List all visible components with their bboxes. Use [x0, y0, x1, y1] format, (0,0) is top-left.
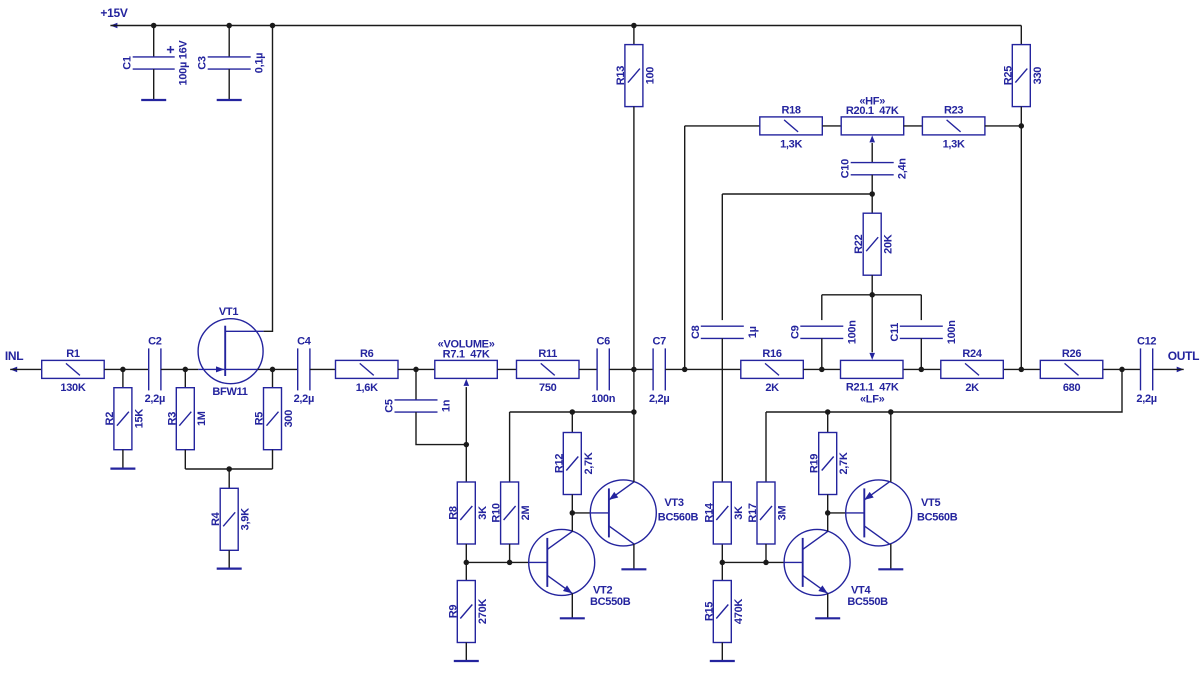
wiper arrow R20.1 [869, 135, 875, 142]
wire C6 to C7 [609, 368, 653, 370]
wire to VT5 base [828, 512, 846, 514]
junction R12 top [570, 409, 576, 415]
svg-text:VT2: VT2 [593, 585, 612, 597]
wiper of R20.1 [871, 143, 873, 163]
wire R10 to base line [509, 544, 511, 562]
resistor R12 [553, 433, 595, 495]
svg-text:C2: C2 [148, 335, 162, 347]
wire R5 to node [272, 450, 274, 469]
svg-text:R4: R4 [210, 511, 222, 526]
resistor R4 [210, 488, 252, 550]
wire base line VT2 [466, 561, 528, 563]
wire VT5 collector to ground [890, 544, 892, 569]
potentiometer R20.1 (HF) [841, 95, 904, 135]
svg-text:2,4n: 2,4n [897, 158, 909, 179]
svg-text:130K: 130K [60, 382, 85, 394]
resistor R11 [517, 348, 580, 394]
svg-text:«LF»: «LF» [860, 393, 885, 405]
svg-text:C12: C12 [1137, 335, 1156, 347]
wire down to R19 [827, 412, 829, 433]
svg-text:R8: R8 [447, 506, 459, 520]
wire down to R2 [122, 369, 124, 387]
capacitor C8 [690, 325, 759, 339]
wire node to VT2 collector [571, 513, 573, 532]
wire R25 down to main line [1020, 107, 1022, 370]
wire C3 to ground [228, 69, 230, 100]
junction C9/main [819, 367, 825, 373]
resistor R26 [1040, 348, 1103, 394]
ground under VT4 [815, 617, 840, 619]
svg-text:C1: C1 [121, 56, 133, 70]
svg-text:C10: C10 [840, 159, 852, 178]
svg-text:20K: 20K [883, 234, 895, 254]
wire R10/R12 node line [510, 411, 635, 413]
svg-text:R18: R18 [781, 105, 800, 117]
svg-text:R22: R22 [853, 234, 865, 253]
ground under C1 [141, 99, 166, 101]
capacitor C3 [197, 53, 266, 73]
wire VT4 emitter to ground [827, 593, 829, 618]
wire main line to R12 node [633, 369, 635, 412]
wire pot to R11 [497, 368, 516, 370]
ground under VT3 [621, 568, 646, 570]
capacitor C5 [384, 399, 453, 413]
svg-text:BC550B: BC550B [847, 596, 888, 608]
svg-text:R5: R5 [254, 412, 266, 426]
wire VT1 source to C4 [258, 368, 298, 370]
wire R3 to node [184, 450, 186, 469]
svg-text:R24: R24 [962, 348, 982, 360]
svg-text:270K: 270K [477, 599, 489, 624]
svg-text:2K: 2K [765, 382, 779, 394]
junction R22/wiper [869, 292, 875, 298]
wire rail to R13 [633, 26, 635, 45]
svg-text:C7: C7 [652, 335, 666, 347]
wiper arrow R7.1 [464, 379, 470, 386]
wire rail to C3 [228, 26, 230, 57]
resistor R18 [760, 105, 823, 151]
capacitor C7 [649, 335, 669, 405]
wire C2 to VT1 gate [161, 368, 198, 370]
capacitor C11 [889, 320, 958, 344]
junction R23/R25 [1019, 123, 1025, 128]
svg-text:2,2µ: 2,2µ [649, 393, 669, 405]
svg-text:2K: 2K [965, 382, 979, 394]
resistor R25 [1002, 45, 1044, 107]
resistor R8 [447, 482, 489, 544]
svg-text:C3: C3 [197, 56, 209, 70]
wire node to R22 [871, 194, 873, 213]
wire C12 to OUTL [1153, 368, 1184, 370]
svg-text:C8: C8 [690, 325, 702, 339]
svg-text:BFW11: BFW11 [212, 386, 247, 398]
junction R14/R15 [720, 560, 726, 566]
capacitor C6 [591, 335, 615, 405]
junction C7/R18 line [682, 367, 688, 373]
svg-text:BC560B: BC560B [917, 511, 958, 523]
svg-text:R6: R6 [360, 348, 374, 360]
wire R4 to ground [228, 550, 230, 568]
wire INL to R1 [10, 368, 42, 370]
wire node to R8 [465, 445, 467, 482]
ground under R4 [217, 567, 242, 569]
svg-text:2,2µ: 2,2µ [1136, 393, 1156, 405]
wire C10 node line [722, 193, 872, 195]
wire R2 to ground [122, 450, 124, 469]
svg-text:VT4: VT4 [851, 585, 871, 597]
wire base line VT4 [722, 561, 784, 563]
svg-text:100n: 100n [591, 393, 615, 405]
junction R10/base line [507, 560, 512, 566]
svg-text:2M: 2M [520, 506, 532, 521]
svg-text:3,9K: 3,9K [240, 508, 252, 530]
wire R23 to R25 line [985, 125, 1021, 127]
ground under R2 [110, 468, 135, 470]
ground under VT2 [560, 617, 585, 619]
svg-text:2,7K: 2,7K [838, 452, 850, 474]
resistor R16 [741, 348, 804, 394]
wire rail corner to R25 [1020, 26, 1022, 45]
junction C10/R22 [869, 191, 875, 197]
junction VT1 source/R5 [270, 367, 276, 373]
svg-text:2,7K: 2,7K [583, 452, 595, 474]
svg-text:100: 100 [644, 67, 656, 85]
junction R17/base line [763, 560, 769, 566]
wire R8 to base line [465, 544, 467, 562]
junction R12 line/VT3 line [631, 409, 637, 415]
svg-text:R16: R16 [762, 348, 781, 360]
svg-text:R12: R12 [553, 454, 565, 473]
wire R19 to VT4 collector node [827, 495, 829, 513]
svg-text:OUTL: OUTL [1168, 349, 1199, 363]
svg-text:2,2µ: 2,2µ [145, 393, 165, 405]
svg-text:100n: 100n [946, 320, 958, 344]
svg-text:VT5: VT5 [921, 497, 940, 509]
junction rail/VT1 drain [270, 23, 276, 29]
wire node to VT4 collector [827, 513, 829, 532]
svg-text:C9: C9 [789, 325, 801, 339]
INL arrow [10, 367, 17, 373]
wiper arrow R21.1 [869, 353, 875, 360]
ground under C3 [217, 99, 242, 101]
resistor R19 [809, 433, 851, 495]
svg-text:1,3K: 1,3K [943, 138, 965, 150]
wire down to R12 [571, 412, 573, 433]
svg-text:300: 300 [283, 410, 295, 428]
resistor R13 [615, 45, 657, 107]
wire R20.1 to R23 [904, 125, 923, 127]
svg-text:C6: C6 [596, 335, 610, 347]
wire R18 to R20.1 [822, 125, 841, 127]
wire down to R15 [721, 562, 723, 580]
potentiometer R21.1 (LF) [841, 360, 904, 405]
wire down to R9 [465, 562, 467, 580]
wire C4 to R6 [310, 368, 336, 370]
svg-text:R23: R23 [944, 105, 963, 117]
resistor R10 [491, 482, 532, 544]
svg-text:R17: R17 [747, 503, 759, 522]
wire to C9 [821, 295, 823, 320]
resistor R17 [747, 482, 789, 544]
wire R24 to R26 [1003, 368, 1040, 370]
junction R12/VT2 collector/VT3 base [570, 510, 576, 516]
capacitor C12 [1136, 335, 1156, 405]
junction R25/main [1019, 367, 1025, 373]
svg-text:VT3: VT3 [664, 497, 683, 509]
svg-text:R11: R11 [538, 348, 557, 360]
junction rail/C1 [151, 23, 157, 29]
wire R6 to volume pot [398, 368, 435, 370]
wire down to R3 [184, 369, 186, 387]
svg-text:R19: R19 [809, 454, 821, 473]
svg-text:R15: R15 [703, 602, 715, 621]
svg-text:750: 750 [539, 382, 557, 394]
resistor R22 [853, 213, 895, 275]
svg-text:3K: 3K [477, 506, 489, 520]
svg-text:330: 330 [1032, 67, 1044, 85]
junction C2/R3/VT1 gate [183, 367, 189, 373]
wire down to R17 [765, 412, 767, 482]
resistor R6 [336, 348, 399, 394]
resistor R2 [104, 388, 145, 450]
svg-text:100µ 16V: 100µ 16V [178, 40, 190, 86]
svg-text:INL: INL [5, 349, 23, 363]
svg-text:R26: R26 [1062, 348, 1081, 360]
svg-text:680: 680 [1063, 382, 1081, 394]
junction C11/main [919, 367, 925, 373]
junction R26/C12/feedback [1119, 367, 1125, 373]
wire R13 down to main line [633, 107, 635, 370]
wire R14 to base line [721, 544, 723, 562]
wire R15 to ground [721, 643, 723, 662]
wire C11 to main line [920, 338, 922, 369]
svg-text:R10: R10 [491, 503, 503, 522]
wire to C11 [920, 295, 922, 320]
junction rail/C3 [226, 23, 232, 29]
svg-text:VT1: VT1 [219, 306, 238, 318]
transistor VT2 (BC550B) [529, 529, 595, 595]
svg-text:R2: R2 [104, 412, 116, 426]
resistor R5 [254, 388, 296, 450]
wire R12 to VT2 collector node [571, 495, 573, 513]
wire VT3 emitter up [633, 412, 635, 482]
wire down to R10 [509, 412, 511, 482]
+15V arrow [110, 23, 117, 29]
junction R8/R9 [464, 560, 470, 566]
wire feedback line [766, 369, 1122, 412]
svg-text:3K: 3K [733, 506, 745, 520]
svg-text:BC550B: BC550B [590, 596, 631, 608]
capacitor C1 (electrolytic 100u 16V) [121, 40, 189, 86]
wire to R18 [685, 125, 760, 127]
junction R19/VT4 collector/VT5 base [825, 510, 831, 516]
svg-text:R13: R13 [615, 66, 627, 85]
wire rail to C1 [153, 26, 155, 57]
svg-text:0,1µ: 0,1µ [254, 53, 266, 73]
OUTL arrow [1177, 367, 1184, 373]
wire C8 to R14 [721, 338, 723, 482]
wire R1 to C2 [104, 368, 149, 370]
wire C9 to main line [821, 338, 823, 369]
resistor R23 [922, 105, 985, 151]
junction R1/R2 [120, 367, 126, 373]
wire down to R5 [272, 369, 274, 387]
ground under R15 [710, 660, 735, 662]
svg-text:R25: R25 [1002, 66, 1014, 85]
svg-text:R9: R9 [447, 605, 459, 619]
wire C5 to wiper node [416, 412, 466, 445]
ground under R9 [454, 660, 479, 662]
svg-text:1µ: 1µ [747, 326, 759, 338]
wire R9 to ground [465, 643, 467, 662]
wire R16 to R21.1 [803, 368, 840, 370]
capacitor C2 [145, 335, 165, 405]
svg-text:BC560B: BC560B [658, 511, 699, 523]
svg-text:R20.1 47K: R20.1 47K [846, 105, 899, 117]
wire R22 down [871, 275, 873, 295]
junction R3-R5 node/R4 [226, 466, 232, 472]
capacitor C4 [294, 335, 314, 405]
capacitor C10 [840, 158, 909, 179]
wire C1 to ground [153, 69, 155, 100]
wire R21.1 to R24 [903, 368, 941, 370]
wiper of R21.1 [871, 295, 873, 353]
svg-text:15K: 15K [133, 409, 145, 429]
resistor R14 [703, 482, 745, 544]
svg-text:100n: 100n [846, 320, 858, 344]
junction R6/C5/pot [413, 367, 419, 373]
resistor R1 [42, 348, 104, 394]
wire VT2 emitter to ground [571, 593, 573, 618]
wire R22 node line [822, 294, 922, 296]
svg-text:470K: 470K [733, 599, 745, 624]
junction rail/R13 [631, 23, 637, 29]
svg-text:C4: C4 [297, 335, 312, 347]
junction VT5 emitter/feedback [888, 409, 894, 415]
svg-text:R1: R1 [66, 348, 80, 360]
wire HF row down to main line [684, 126, 686, 370]
svg-text:+15V: +15V [100, 6, 127, 20]
wire VT5 emitter up [890, 412, 892, 482]
wiper of R7.1 [465, 387, 467, 445]
wire R26 to C12 [1103, 368, 1141, 370]
ground under VT5 [878, 568, 903, 570]
svg-text:R14: R14 [703, 502, 715, 522]
resistor R15 [703, 581, 745, 643]
wire to VT3 base [572, 512, 590, 514]
wire VT1 drain to rail [264, 26, 273, 332]
svg-text:R21.1 47K: R21.1 47K [846, 381, 899, 393]
svg-text:1n: 1n [441, 399, 453, 412]
wire R11 to C6 [579, 368, 597, 370]
transistor VT3 (BC560B) [590, 480, 656, 546]
resistor R24 [941, 348, 1004, 394]
svg-text:3M: 3M [777, 506, 789, 521]
wire C7 to R16 [665, 368, 741, 370]
wire +15V rail [110, 25, 1021, 27]
wire down to C5 [415, 369, 417, 400]
capacitor C9 [789, 320, 858, 344]
transistor VT4 (BC550B) [784, 529, 850, 595]
wire C10 down [871, 175, 873, 194]
potentiometer R7.1 (VOLUME) [435, 339, 498, 379]
wire down to C8 [721, 194, 723, 320]
transistor VT5 (BC560B) [846, 480, 912, 546]
transistor VT1 (JFET BFW11) [198, 306, 264, 398]
resistor R3 [166, 388, 208, 450]
svg-text:R3: R3 [166, 412, 178, 426]
wire R17 to base line [765, 544, 767, 562]
wire R3-R5 node [185, 468, 272, 470]
junction C5/wiper/R8 [464, 442, 470, 448]
svg-text:C11: C11 [889, 323, 901, 342]
svg-text:1,6K: 1,6K [356, 382, 378, 394]
wire VT3 collector to ground [633, 544, 635, 569]
svg-text:2,2µ: 2,2µ [294, 393, 314, 405]
wire node to R4 [228, 469, 230, 488]
junction R19 top [825, 409, 831, 415]
svg-text:R7.1 47K: R7.1 47K [443, 348, 490, 360]
svg-text:1M: 1M [196, 411, 208, 426]
svg-text:1,3K: 1,3K [780, 138, 802, 150]
svg-text:C5: C5 [384, 399, 396, 413]
resistor R9 [447, 581, 489, 643]
junction R13/main [631, 367, 637, 373]
